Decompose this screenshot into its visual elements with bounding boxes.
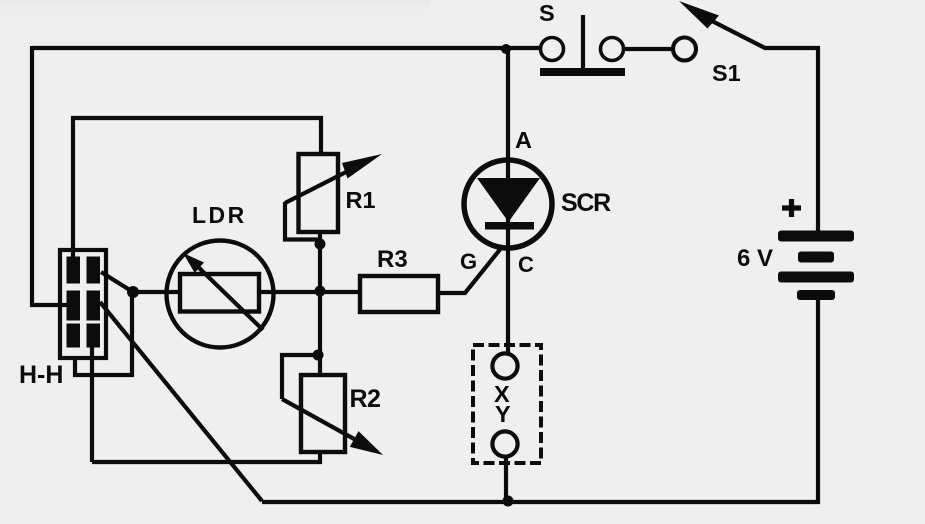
wire bottom loop to R2 bottom (92, 451, 320, 462)
wire main horizontal rail (133, 290, 362, 294)
wire top rail (32, 46, 541, 50)
svg-text:R1: R1 (346, 187, 376, 213)
svg-text:SCR: SCR (561, 189, 611, 217)
svg-text:C: C (518, 252, 534, 277)
R2 wiper arrow (282, 399, 356, 440)
LDR wiper arrow (193, 262, 263, 330)
wire left drop to H-H (32, 46, 67, 305)
switch S bar (540, 68, 625, 76)
wire R2 wiper bracket (282, 355, 318, 399)
switch S stem (581, 15, 585, 68)
node bottom rail junction (503, 496, 514, 507)
R1 wiper arrow (285, 169, 352, 203)
svg-text:G: G (460, 249, 477, 274)
wire SCR vertical anode-cathode (506, 46, 510, 354)
wire main rail to R2 (318, 292, 322, 376)
wire diagonal H-H pin to node A (101, 272, 133, 292)
svg-text:S: S (539, 0, 555, 26)
battery plate long top (778, 231, 854, 242)
wire R1 wiper bracket (285, 202, 318, 240)
LDR circle (167, 241, 274, 348)
resistor R3 body (360, 276, 438, 312)
svg-text:A: A (515, 127, 532, 153)
switch S contact 2 (601, 38, 624, 61)
SCR U1 circle (464, 160, 552, 248)
node top rail junction (501, 44, 511, 54)
svg-text:S1: S1 (712, 60, 741, 86)
wire inner loop H-H top to R1 top (73, 118, 321, 258)
dashed box XY (473, 345, 541, 463)
svg-text:Y: Y (495, 401, 511, 427)
wire between lamps (504, 456, 508, 502)
wire S1 arm shaft (712, 21, 766, 49)
svg-text:6 V: 6 V (737, 245, 773, 272)
switch S contact 1 (541, 38, 564, 61)
wire bracket H-H to node A (75, 294, 132, 375)
node on main rail (315, 286, 326, 297)
svg-text:R3: R3 (377, 246, 408, 273)
node below R1 (315, 239, 326, 250)
S1 arrowhead (679, 1, 719, 29)
resistor R2 body (301, 375, 345, 452)
wire S contact link (624, 47, 671, 51)
battery plate long (778, 272, 854, 283)
svg-text:LDR: LDR (192, 202, 247, 228)
svg-text:R2: R2 (350, 385, 381, 413)
lamp X (492, 353, 517, 378)
wire H-H bottom pin down (90, 347, 94, 462)
wire R3 to gate (438, 242, 506, 293)
resistor R1 body (299, 154, 339, 232)
wire long diagonal H-H pin to bottom rail (100, 302, 262, 501)
SCR triangle (477, 178, 540, 222)
lamp Y (492, 431, 517, 456)
LDR body (180, 274, 259, 312)
battery plate short (798, 252, 834, 263)
wire battery plus riser from S1 (765, 48, 818, 231)
SCR cathode bar (485, 222, 534, 230)
H-H connector body (60, 250, 106, 358)
battery plate short bottom (797, 290, 835, 300)
node above R2 (313, 350, 324, 361)
switch S1 contact (673, 38, 696, 61)
node A junction dot (127, 286, 139, 298)
wire bottom rail and battery minus riser (262, 300, 818, 502)
svg-text:H-H: H-H (19, 361, 63, 389)
battery plus sign (782, 199, 801, 217)
wire below R1 (318, 232, 322, 292)
H-H contact bars (67, 257, 101, 348)
